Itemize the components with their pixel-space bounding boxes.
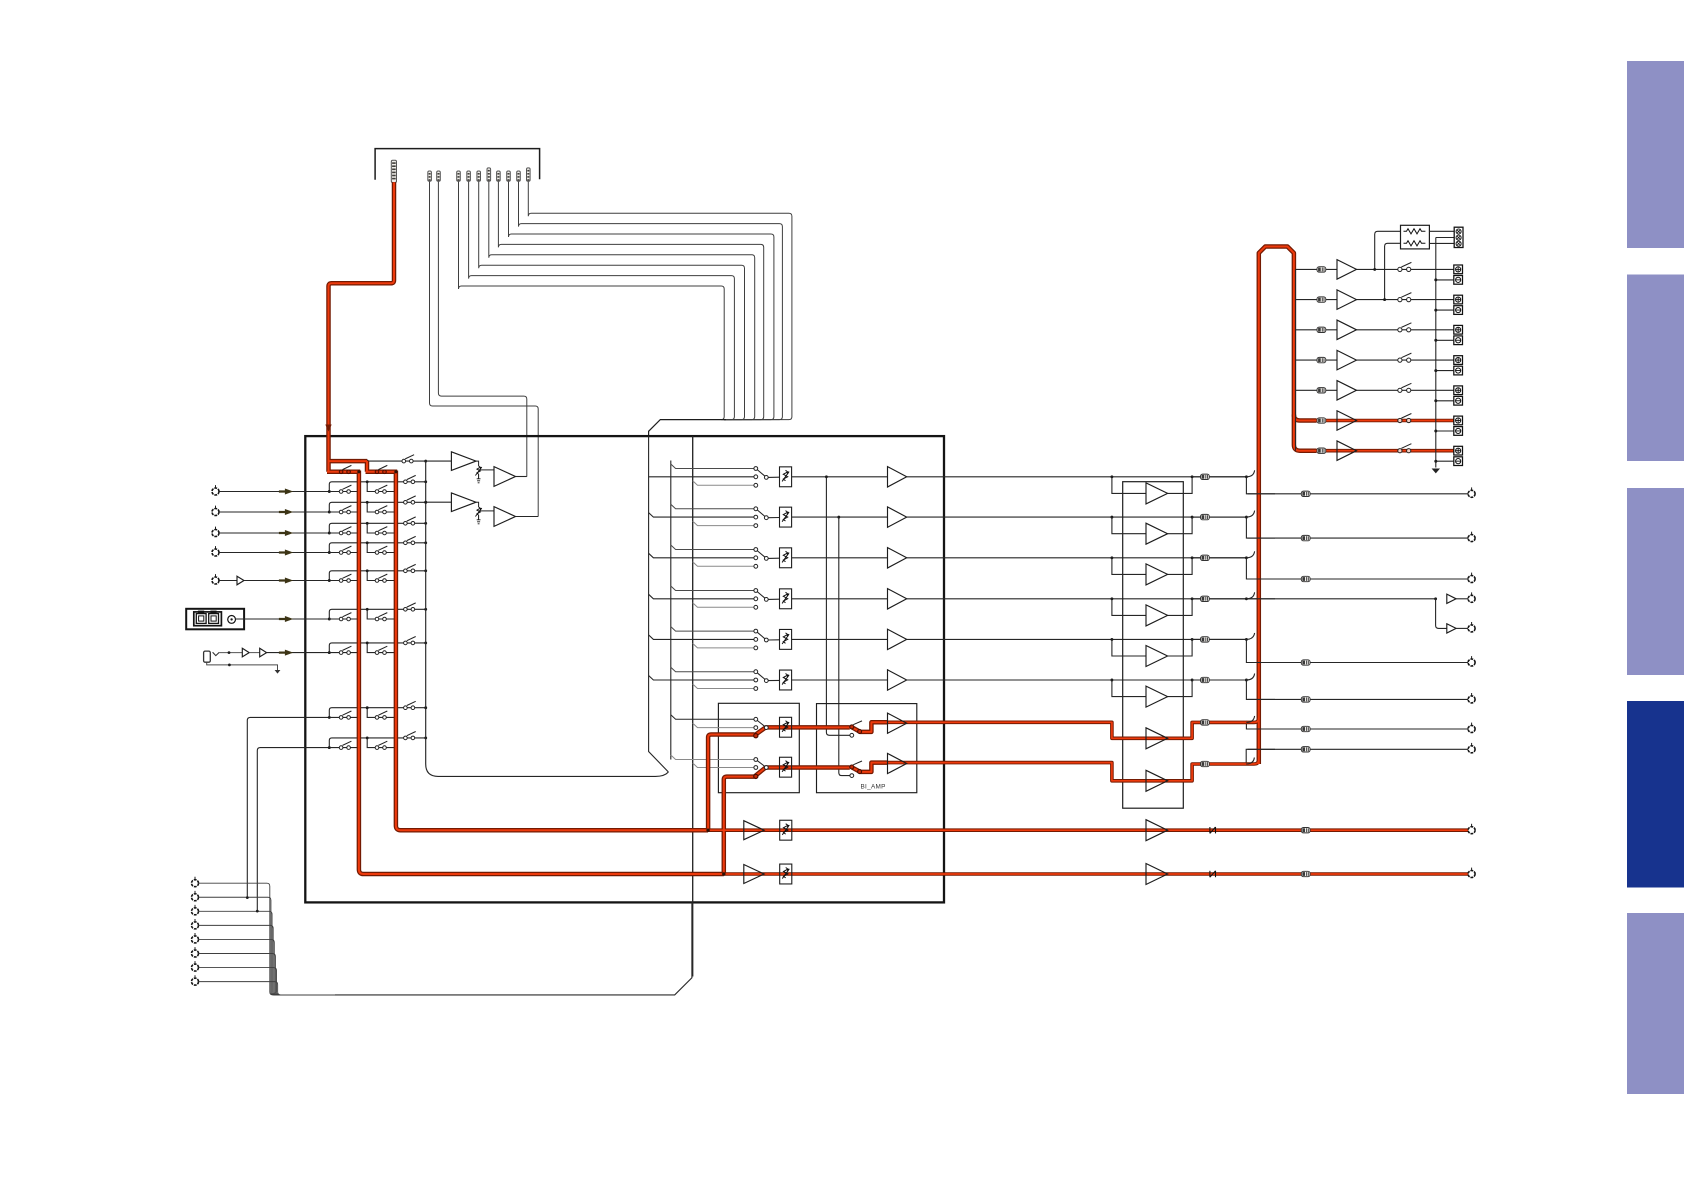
wire terminal minus 6 [1436, 430, 1454, 432]
wire aux feed ch5 [671, 627, 754, 632]
wire AV5 into matrix [244, 580, 329, 582]
wire jack AV5 to buffer [219, 580, 237, 582]
volume ch5 [780, 629, 792, 649]
wire DSP ch5 from CB25 [498, 182, 763, 420]
wire pre bus to power amp 3 [1296, 329, 1318, 331]
amp loop ch6 [1112, 680, 1192, 697]
wire DSP ch3 from CB23 [479, 182, 745, 420]
wire portable into matrix [267, 652, 330, 654]
wire net feed ch5 [693, 643, 754, 648]
attenuator symbol [1209, 827, 1211, 833]
arrow input PORTABLE [279, 650, 292, 655]
section tab 4 (active) [1627, 701, 1684, 888]
wire ch6 out [1192, 679, 1246, 681]
pre-out jack center A [1471, 592, 1473, 595]
front volume sub-box [718, 703, 799, 792]
input jack AV4 [215, 546, 217, 549]
switch S0b (closed) [375, 470, 379, 474]
wire ch2 out [1192, 516, 1246, 518]
wire pre bus to power amp 1 [1296, 268, 1318, 270]
output amp ch3 [1146, 564, 1168, 585]
wire buffer B out [516, 516, 539, 518]
wire DOCK into matrix [236, 618, 330, 620]
wire DSP bus vertical [649, 436, 669, 772]
wire volume to amp ch1 [792, 476, 888, 478]
wire ch3 out [1192, 557, 1246, 559]
matrix row 5 jog [367, 571, 396, 581]
pre bus vertical [1295, 269, 1297, 450]
DOCK terminal box [186, 609, 244, 630]
buffer amp A1 [451, 452, 476, 471]
zone connector [1301, 828, 1310, 833]
volume trim B1 [476, 502, 479, 507]
wire DSP feed ch1 [649, 476, 754, 478]
speaker relay switch 3 [1398, 328, 1402, 332]
wire power amp row 3 [1326, 329, 1454, 331]
output amp ch1 [1146, 483, 1168, 504]
arrow input AV3 [279, 530, 292, 535]
connector ch2 [1201, 514, 1210, 519]
section tab 1 [1627, 61, 1684, 248]
wire aux feed ch3 [671, 545, 754, 550]
network connector pin 8 [194, 975, 196, 978]
arrow input DOCK [279, 616, 292, 621]
matrix row 6 branch [329, 609, 425, 619]
DOCK jack circle [228, 616, 236, 624]
switch S6b [375, 617, 379, 621]
hop arc front R [1246, 758, 1254, 765]
connector ch5 [1201, 637, 1210, 642]
zone line amp 2 [1146, 864, 1168, 885]
wire net feed front1 [693, 723, 754, 728]
switch S1b [375, 490, 379, 494]
connector front R pre-out [1301, 747, 1310, 752]
connector ch4 [1201, 596, 1210, 601]
wire [1456, 627, 1468, 629]
speaker relay switch 2 [1398, 298, 1402, 302]
wire terminal minus 7 [1436, 460, 1454, 462]
matrix row 8 jog [367, 708, 396, 718]
wire CB103 to buffer output [438, 182, 526, 477]
wire net feed ch1 [693, 481, 754, 486]
connector power 4 [1317, 357, 1326, 362]
connector CB102 [428, 171, 432, 181]
output buffer block [1123, 482, 1184, 809]
connector pre-out [1301, 535, 1310, 540]
speaker relay switch 7 [1398, 449, 1402, 453]
speaker relay switch 4 [1398, 358, 1402, 362]
wire aux feed ch2 [671, 504, 754, 509]
network connector pin 5 [194, 933, 196, 936]
speaker relay switch 1 [1398, 267, 1402, 271]
red signal path core [329, 182, 395, 428]
connector front R [1201, 761, 1210, 766]
output amp ch5 [1146, 646, 1168, 667]
headphone jack [1454, 227, 1463, 247]
wire volume to amp ch5 [792, 638, 888, 640]
wire selector to volume ch4 [768, 598, 779, 600]
wire ch6 to power section [907, 679, 1247, 681]
wire AV2 into matrix [219, 511, 329, 513]
zone line amp 2 [1146, 820, 1168, 841]
wire crossing [1248, 537, 1276, 539]
biamp switch R [850, 765, 854, 769]
power amp 7 (driven) [1337, 441, 1357, 461]
wire aux feed ch4 [671, 586, 754, 591]
switch S6c [404, 608, 408, 612]
amp loop ch2 [1112, 517, 1192, 534]
wire pre-out step ch [1246, 477, 1471, 494]
volume ch1 [780, 467, 792, 487]
matrix row 6 jog [367, 609, 396, 619]
wire selector to volume ch1 [768, 476, 779, 478]
zone out jack [1471, 824, 1473, 827]
selector front R [754, 758, 758, 762]
wire to buffer B [426, 501, 452, 503]
wire aux feed front1 [671, 715, 754, 720]
speaker terminal 4 [1454, 356, 1463, 365]
wire resistor to phones tip [1429, 230, 1454, 232]
arrow input AV2 [279, 509, 292, 514]
matrix row 7 jog [367, 643, 396, 653]
wire DSP feed ch2 [649, 513, 754, 518]
network connector pin 1 [194, 877, 196, 880]
red path entry arrow [325, 425, 331, 432]
input selector ch6 [754, 670, 758, 674]
connector power 1 [1317, 267, 1326, 272]
wire net pin 2 [199, 897, 341, 995]
wire front L pre-out [1246, 722, 1471, 729]
output amp ch2 [1146, 523, 1168, 544]
wire amp2 to resistor [1385, 243, 1401, 299]
wire crossing [1248, 662, 1276, 664]
wire [249, 652, 260, 654]
section tab 5 [1627, 913, 1684, 1094]
pre-out jack [1471, 693, 1473, 696]
volume trim A1 [476, 461, 479, 466]
input selector ch1 [754, 467, 758, 471]
wire selector to volume ch6 [768, 679, 779, 681]
wire center split [1436, 599, 1447, 629]
switch S2b [375, 510, 379, 514]
wire amp1 to resistor [1375, 231, 1401, 269]
switch S7b [375, 651, 379, 655]
connector pre-out [1301, 660, 1310, 665]
matrix row 2 branch [329, 502, 425, 512]
connector front L [1201, 720, 1210, 725]
wire net pin 4 [199, 925, 341, 995]
network connector pin 2 [194, 891, 196, 894]
pre-out jack [1471, 532, 1473, 535]
wire selector to volume ch3 [768, 557, 779, 559]
network connector pin 7 [194, 961, 196, 964]
wire net feed ch4 [693, 603, 754, 608]
attenuator symbol [1209, 871, 1211, 877]
matrix row 9 branch [329, 738, 425, 748]
connector power 7 [1317, 448, 1326, 453]
wire aux bus vertical x671 [670, 461, 672, 760]
amp loop ch4 [1112, 599, 1192, 616]
wire ch2 to power section [907, 516, 1247, 518]
wire terminal minus 3 [1436, 339, 1454, 341]
wire net R into matrix [257, 748, 329, 912]
connector pre-out [1301, 491, 1310, 496]
speaker terminal 5 [1454, 386, 1463, 395]
arrow input AV1 [279, 489, 292, 494]
zone line amp [744, 865, 764, 884]
matrix row 8 branch [329, 708, 425, 718]
wire AV4 into matrix [219, 552, 329, 554]
top board bracket [375, 149, 539, 180]
connector front L pre-out [1301, 726, 1310, 731]
buffer amp B1 [451, 493, 476, 512]
wire resistor to phones ring [1429, 242, 1454, 244]
pre-out jack [1471, 573, 1473, 576]
jack switch contact [213, 652, 220, 655]
wire net pin 3 [199, 911, 341, 995]
wire crossing [1248, 578, 1276, 580]
zone volume [780, 820, 792, 840]
arrow input AV5 [279, 578, 292, 583]
matrix row 7 branch [329, 643, 425, 653]
wire power amp row 5 [1326, 389, 1454, 391]
connector pre-out [1301, 697, 1310, 702]
wire DSP feed ch3 [649, 553, 754, 558]
input selector ch2 [754, 507, 758, 511]
wire DSP ch4 from CB24 [489, 182, 755, 420]
input selector ch3 [754, 548, 758, 552]
amp loop ch1 [1112, 477, 1192, 494]
power amp 1 [1337, 260, 1357, 280]
wire net pin 6 [199, 954, 341, 995]
line amp ch5 [888, 629, 907, 649]
connector power 3 [1317, 327, 1326, 332]
wire crossing center [1248, 598, 1276, 600]
connector CB27 [517, 171, 521, 181]
wire aux feed ch6 [671, 667, 754, 672]
amp loop ch5 [1112, 639, 1192, 656]
wire selector to volume ch5 [768, 639, 779, 641]
wire power amp row 4 [1326, 359, 1454, 361]
wire pre-out step ch [1246, 639, 1471, 662]
wire volume to amp ch2 [792, 516, 888, 518]
speaker terminal 6 [1454, 416, 1463, 425]
speaker minus bus [1435, 238, 1437, 468]
wire AV1 into matrix [219, 491, 329, 493]
pre-out jack front L [1471, 723, 1473, 726]
wire crossing [1248, 493, 1276, 495]
section tab 3 [1627, 488, 1684, 675]
line amp ch4 [888, 589, 907, 609]
front L power amp [1146, 728, 1168, 749]
matrix row 1 jog [367, 482, 396, 492]
switch S2c [404, 501, 408, 505]
switch S5a [329, 580, 359, 582]
wire CB102 to buffer output [430, 182, 539, 517]
buffer amp A2 [494, 467, 516, 487]
switch S6a [329, 618, 359, 620]
power amp 5 [1337, 381, 1357, 401]
front R amp [888, 753, 907, 773]
wire buffer A out [516, 476, 527, 478]
volume ch4 [780, 589, 792, 609]
wire phones sleeve [1436, 237, 1454, 239]
wire net feed ch2 [693, 521, 754, 526]
buffer amp B2 [494, 507, 516, 527]
network connector pin 6 [194, 947, 196, 950]
wire ch4 to power section [907, 598, 1247, 600]
switch S3c [404, 522, 408, 526]
wire portable tip [219, 652, 242, 654]
wire DSP feed ch6 [649, 676, 754, 681]
input jack AV3 [215, 527, 217, 530]
wire terminal minus 5 [1436, 400, 1454, 402]
connector ch3 [1201, 555, 1210, 560]
wire volume to amp ch4 [792, 598, 888, 600]
matrix row 2 jog [367, 502, 396, 512]
zone volume [780, 864, 792, 884]
connector CB28 [527, 168, 531, 181]
BI_AMP sub-box [817, 704, 917, 793]
wire pre-out step ch [1246, 680, 1471, 699]
network connector pin 4 [194, 919, 196, 922]
wire AV3 into matrix [219, 532, 329, 534]
switch S7a [329, 652, 359, 654]
red signal path (selected source) outline [329, 182, 395, 428]
wire portable sleeve to ground [207, 662, 278, 670]
headphone resistor box [1401, 225, 1430, 249]
switch S4c [404, 541, 408, 545]
switch S1a [329, 491, 359, 493]
buffer amp AV5 [237, 576, 244, 585]
connector CB23 [477, 171, 481, 181]
input selector ch4 [754, 589, 758, 593]
hop arc front L [1246, 716, 1254, 723]
zone connector [1301, 871, 1310, 876]
input jack AV5 [215, 574, 217, 577]
matrix row 3 branch [329, 523, 425, 533]
speaker terminal 1 [1454, 265, 1463, 274]
switch S9b [375, 746, 379, 750]
volume ch3 [780, 548, 792, 568]
wire power amp row 1 [1326, 268, 1454, 270]
wire net bus vertical x693 [692, 436, 694, 976]
wire center pre-out [1246, 598, 1435, 600]
wire [479, 469, 494, 471]
volume ch2 [780, 507, 792, 527]
buffer center B [1447, 624, 1456, 633]
wire DSP ch6 from CB26 [509, 182, 774, 420]
switch S8c [404, 706, 408, 710]
wire pre bus to power amp 4 [1296, 359, 1318, 361]
matrix row 1 branch [329, 482, 425, 492]
matrix row 9 jog [367, 738, 396, 748]
rec bus vertical [426, 461, 669, 776]
wire net feed ch6 [693, 684, 754, 689]
connector CB22 [467, 171, 471, 181]
wire crossing [1248, 698, 1276, 700]
wire net pin 8 [199, 982, 341, 995]
wire net feed front2 [693, 763, 754, 768]
wire aux feed front2 [671, 755, 754, 760]
wire merged DSP bus to box C [649, 420, 726, 437]
buffer center A [1447, 594, 1456, 603]
matrix row 5 branch [329, 571, 425, 581]
wire volume to amp ch3 [792, 557, 888, 559]
connector CB21 [457, 171, 461, 181]
biamp switch L [850, 725, 854, 729]
wire net pin 1 [199, 883, 341, 995]
matrix row 0 rec branch [367, 460, 426, 462]
connector CB25 [497, 171, 501, 181]
switch S4a [329, 552, 359, 554]
volume ch6 [780, 670, 792, 690]
ground speaker bus [1432, 469, 1440, 474]
PORTABLE jack [204, 651, 211, 662]
line amp ch2 [888, 507, 907, 527]
wire crossing [1248, 748, 1276, 750]
buffer amp portable 2 [260, 648, 267, 657]
connector CB26 [507, 171, 511, 181]
connector power 2 [1317, 297, 1326, 302]
switch S3a [329, 532, 359, 534]
power amp 2 [1337, 290, 1357, 310]
line amp ch1 [888, 467, 907, 487]
wire DSP feed ch4 [649, 594, 754, 599]
wire front R pre-out [1246, 749, 1471, 764]
switch S0c [402, 459, 406, 463]
power amp 4 [1337, 350, 1357, 370]
output amp ch4 [1146, 605, 1168, 626]
wire aux feed ch1 [671, 464, 754, 469]
connector pre-out [1301, 576, 1310, 581]
selector front L [754, 717, 758, 721]
pre-out jack [1471, 656, 1473, 659]
connector power 5 [1317, 388, 1326, 393]
matrix row 4 jog [367, 543, 396, 553]
switch S9a [329, 747, 359, 749]
volume front R [780, 757, 792, 777]
switch S8b [375, 716, 379, 720]
hop arc [1246, 511, 1254, 517]
network connector pin 3 [194, 905, 196, 908]
svg-text:BI_AMP: BI_AMP [861, 784, 886, 791]
buffer amp portable 1 [242, 648, 249, 657]
wire terminal minus 4 [1436, 370, 1454, 372]
switch S9c [404, 736, 408, 740]
wire ch1 to power section [907, 476, 1247, 478]
wire DSP ch2 from CB22 [469, 182, 735, 420]
speaker relay switch 6 [1398, 418, 1402, 422]
selector front R contact [754, 774, 758, 778]
wire selector to volume ch2 [768, 517, 779, 519]
matrix row 4 branch [329, 543, 425, 553]
pre-out jack [1471, 487, 1473, 490]
wire ch2 to biamp switch [839, 517, 850, 776]
wire DSP feed ch5 [649, 635, 754, 640]
wire net feed ch3 [693, 562, 754, 567]
selector front L contact [754, 734, 758, 738]
wire net bundle riser [335, 903, 692, 995]
connector CB101 [391, 160, 396, 182]
line amp ch3 [888, 548, 907, 568]
wire crossing [1248, 728, 1276, 730]
hop arc [1246, 633, 1254, 640]
power amp 3 [1337, 320, 1357, 340]
switch S4b [375, 551, 379, 555]
wire terminal minus 2 [1436, 309, 1454, 311]
main analog board box [305, 436, 944, 902]
